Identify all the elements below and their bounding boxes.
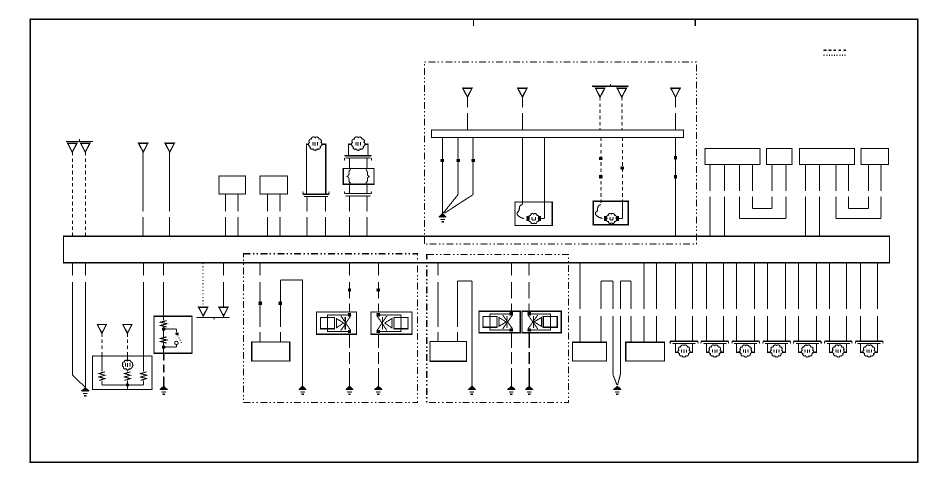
wire — [366, 158, 368, 168]
wire — [348, 196, 350, 212]
lamp unit 5 bulb — [801, 345, 813, 357]
ground — [82, 388, 89, 391]
lamp unit 3 socket — [732, 340, 760, 342]
lamp unit 4 bulb — [771, 345, 783, 357]
opto-coupler 3 — [479, 311, 520, 333]
washer motor box 1 — [515, 202, 552, 226]
washer motor 1 — [529, 214, 539, 224]
dashed wire — [599, 97, 601, 130]
relay box — [154, 316, 192, 353]
connector box 1 — [219, 176, 246, 194]
lamp unit 5 wires — [798, 263, 800, 309]
wire — [544, 137, 546, 218]
relay box A — [705, 149, 760, 165]
dashed wire to ground — [528, 333, 530, 348]
unit internal bus bar — [431, 130, 683, 137]
lamp unit 6 socket — [825, 340, 853, 342]
wire to ground diag — [457, 137, 459, 194]
opto-coupler 1 — [316, 312, 356, 334]
legend dashed-wire sample — [824, 49, 847, 51]
lamp unit 3 wires — [736, 263, 738, 309]
upper connector bar — [345, 155, 372, 157]
link wire outer U — [835, 164, 837, 191]
hook wire pair left — [601, 280, 613, 282]
wire — [324, 196, 326, 211]
lower connector bar — [345, 193, 372, 195]
link wire inner U — [848, 164, 850, 191]
lamp unit 4 socket — [763, 340, 791, 342]
component box — [430, 342, 467, 362]
ground — [346, 386, 353, 389]
fused bulb lamp circle — [351, 137, 364, 150]
relay box C — [799, 149, 854, 165]
wire from triangle 3 — [142, 152, 144, 211]
lamp unit 7 bulb — [863, 345, 875, 357]
wire — [348, 158, 350, 168]
wire — [143, 356, 145, 372]
ground — [160, 386, 167, 389]
fuse element 2 — [366, 169, 369, 183]
wire to bus — [675, 137, 677, 236]
relay junction — [162, 327, 166, 331]
wire — [306, 196, 308, 211]
dashed wire — [126, 333, 128, 356]
wire with splice — [377, 263, 379, 276]
wire — [126, 370, 128, 372]
lamp bulb — [126, 356, 128, 361]
wire to ground — [441, 137, 443, 213]
fused bulb body — [349, 144, 368, 155]
fuse element 1 — [347, 169, 350, 183]
ground rail wire — [302, 280, 304, 386]
overline above dashed pair — [592, 85, 628, 87]
underline below triangles — [197, 316, 230, 318]
connector triangle 4 — [165, 143, 174, 152]
wire — [101, 356, 103, 372]
dashed wire to ground — [510, 333, 512, 348]
dashed wire from triangle 2 — [84, 152, 86, 236]
connector triangle 3 — [139, 143, 148, 152]
relay coil 1 — [163, 316, 165, 320]
connector triangle 2 — [81, 143, 90, 152]
wire — [237, 194, 239, 212]
lamp unit 2 wires — [706, 263, 708, 309]
lamp unit 5 socket — [794, 340, 822, 342]
wire — [437, 263, 439, 276]
component box — [626, 342, 665, 361]
dashed wire to ground — [377, 334, 379, 348]
wire to ground diag — [472, 137, 474, 194]
lamp triangle — [97, 324, 106, 333]
motor feed squiggle — [517, 205, 524, 219]
wire — [724, 165, 726, 192]
bulb lamp circle — [308, 137, 321, 150]
ground — [526, 386, 533, 389]
wire — [510, 263, 512, 276]
motor feed squiggle — [595, 205, 602, 219]
dashed wire — [621, 137, 623, 201]
wire — [279, 194, 281, 212]
wire — [143, 263, 145, 276]
lamp unit 7 wires — [860, 263, 862, 309]
link wire outer U — [739, 165, 741, 192]
wire — [84, 263, 86, 276]
resistor — [141, 372, 147, 381]
ground — [375, 386, 382, 389]
wire — [521, 137, 523, 204]
ground rail wire — [471, 281, 473, 386]
connector triangle — [617, 88, 626, 97]
lamp unit 6 bulb — [832, 345, 844, 357]
wire — [579, 263, 581, 309]
connector triangle — [518, 88, 527, 97]
ground — [508, 386, 515, 389]
wire — [348, 184, 350, 193]
lamp unit 3 bulb — [740, 345, 752, 357]
relay coil 2 — [163, 329, 165, 337]
wire — [675, 97, 677, 107]
wire with splice — [280, 279, 303, 281]
wire — [266, 194, 268, 212]
overline above connector pair — [66, 141, 93, 143]
wire — [528, 263, 530, 276]
wire — [366, 184, 368, 193]
wire — [521, 97, 523, 107]
connector triangle — [463, 88, 472, 97]
lamp unit 1 wires — [675, 263, 677, 309]
washer/wiper unit dash-dot boundary — [425, 62, 697, 244]
connector triangle — [199, 307, 208, 316]
wire — [804, 164, 806, 191]
lamp unit 4 wires — [767, 263, 769, 309]
dashed wire — [600, 137, 602, 204]
washer motor box 2 — [593, 201, 628, 225]
hook wire pair right — [620, 280, 631, 282]
lamp unit 1 bulb — [678, 345, 690, 357]
frame zone tick 1 — [473, 20, 475, 26]
opto-coupler 4 — [522, 311, 561, 333]
connector box 2 — [260, 176, 288, 194]
wire from triangle 4 — [169, 152, 171, 211]
wire — [224, 194, 226, 212]
connector triangle — [671, 88, 680, 97]
dashed wire — [101, 333, 103, 356]
frame zone tick 2 — [694, 20, 696, 26]
ground — [468, 386, 475, 389]
wire — [366, 196, 368, 212]
lamp unit 1 socket — [670, 340, 698, 342]
connector triangle — [219, 307, 228, 316]
legend dotted-wire sample — [824, 54, 847, 56]
dashed wire to ground — [349, 334, 351, 348]
wire — [656, 263, 658, 309]
resistor — [125, 372, 131, 381]
wire — [466, 97, 468, 107]
dashed wire — [621, 97, 623, 130]
unit dash-dot boundary — [244, 254, 418, 403]
wire — [643, 263, 645, 309]
link wire inner U — [752, 165, 754, 192]
dashed wire from triangle 1 — [71, 152, 73, 236]
bulb component body — [306, 144, 325, 194]
opto-coupler 2 — [371, 312, 412, 334]
washer motor 2 — [606, 213, 616, 223]
relay box D — [861, 149, 889, 165]
dotted wire — [202, 263, 204, 307]
lamp unit 2 socket — [701, 340, 729, 342]
lamp triangle — [123, 324, 132, 333]
lamp box bottom rail — [102, 384, 144, 386]
dashed wire to ground — [163, 353, 165, 360]
lamp unit 2 bulb — [709, 345, 721, 357]
relay box B — [767, 149, 793, 165]
wire — [818, 164, 820, 191]
ground — [614, 386, 621, 389]
wire — [709, 165, 711, 192]
wire with splice — [349, 263, 351, 276]
wire — [71, 263, 73, 276]
wire — [223, 263, 225, 276]
ground — [299, 386, 306, 389]
wire — [458, 280, 472, 282]
connector triangle — [596, 88, 605, 97]
unit dash-dot boundary — [427, 255, 569, 403]
relay junction — [162, 345, 166, 349]
lamp unit 6 wires — [829, 263, 831, 309]
lamp unit 7 socket — [855, 340, 883, 342]
wire with splice — [259, 263, 261, 276]
wire — [163, 347, 165, 353]
fuse box — [343, 168, 374, 184]
connector triangle 1 — [68, 143, 77, 152]
ground — [439, 214, 446, 217]
bulb connector bar — [303, 193, 329, 195]
junction block bus bar — [63, 236, 889, 262]
resistor — [99, 372, 105, 381]
relay switch — [164, 328, 177, 330]
wire — [163, 263, 165, 276]
interior lamp box — [92, 356, 152, 390]
component box — [572, 342, 606, 361]
component box — [252, 342, 290, 361]
